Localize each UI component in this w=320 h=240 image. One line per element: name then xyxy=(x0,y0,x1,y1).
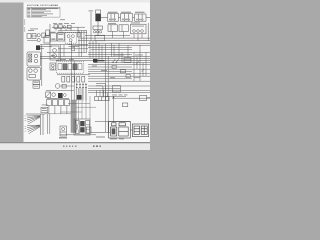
horn box xyxy=(62,84,66,88)
solenoid box xyxy=(46,92,51,97)
fuse F2 xyxy=(67,76,70,82)
top bus wires xyxy=(75,36,150,46)
gauge box G1 xyxy=(44,36,50,43)
fuse F3 xyxy=(72,76,75,82)
wire from coil down xyxy=(97,21,99,36)
node label near coil xyxy=(89,10,94,13)
viewer bottom divider line xyxy=(0,142,150,143)
wire below relay bank xyxy=(60,134,96,136)
connector fan CN1 xyxy=(27,116,40,124)
svg-text:ELECTRICAL CIRCUIT DIAGRAM: ELECTRICAL CIRCUIT DIAGRAM xyxy=(27,4,58,7)
horn circle H1 xyxy=(55,84,60,89)
junction node dot xyxy=(113,96,115,98)
gauge drop wires xyxy=(61,45,64,61)
meter box A xyxy=(50,33,56,41)
wire bottom link xyxy=(95,121,130,123)
right half vertical wires xyxy=(90,41,146,132)
small inline relay xyxy=(72,46,75,51)
battery unit box xyxy=(109,122,131,138)
wire fan to bundle xyxy=(45,113,72,115)
switch box row SW2 xyxy=(52,100,57,106)
labels near junction connector xyxy=(51,55,74,60)
instrument cluster U2 (dashed) xyxy=(65,33,76,43)
meter box B xyxy=(57,33,64,41)
ignition coil T1 xyxy=(96,10,101,21)
relay box row mid-top K4 xyxy=(108,25,117,32)
legend table text rows xyxy=(28,8,58,17)
wire mesh right of band xyxy=(60,88,96,120)
dark junction box on band xyxy=(77,95,82,100)
wire horn to bundle xyxy=(60,85,74,87)
ground chain wire xyxy=(52,25,85,33)
sensor circle small xyxy=(63,94,66,97)
labels right half lower xyxy=(92,66,140,79)
legend table xyxy=(27,7,60,17)
relay bank bottom-mid xyxy=(74,119,90,135)
vertical wire x50 xyxy=(49,24,51,47)
harness band (gray vertical bundle) xyxy=(71,100,76,133)
junction connector J1 (dashed) xyxy=(56,62,83,74)
ignition switch box bottom xyxy=(60,126,66,136)
small box mid-low xyxy=(122,103,127,107)
vertical bundle from instrument wires xyxy=(79,31,87,57)
labels above flasher xyxy=(108,23,140,24)
lamp B2 xyxy=(37,38,40,41)
fuse row bus wire xyxy=(57,74,90,76)
motor circle M2 xyxy=(52,93,56,97)
switch box row SW1 xyxy=(46,100,51,106)
wires sender to gauges xyxy=(40,46,52,48)
terminal strip row xyxy=(95,97,109,101)
white schematic page xyxy=(24,3,151,143)
wire K3 to page edge xyxy=(146,17,150,19)
dual gauge G2 xyxy=(50,46,59,60)
connector tick pairs xyxy=(76,85,87,88)
starter unit box xyxy=(132,124,148,137)
wire K2-K3 xyxy=(133,17,135,19)
lower-left small box xyxy=(86,127,91,133)
battery feed vertical wire xyxy=(113,97,115,122)
ignition label dash xyxy=(59,136,67,139)
small box right edge xyxy=(140,95,147,100)
indicator box L4 xyxy=(46,30,49,35)
indicator box L2 xyxy=(32,34,36,39)
box-to-bus stub wires xyxy=(113,31,143,40)
sender blob xyxy=(36,45,40,50)
page edge marks xyxy=(23,19,26,32)
gauge feed wire xyxy=(40,44,72,46)
small components on right bus xyxy=(112,61,144,77)
small relay pair boxes xyxy=(33,81,40,88)
wires below switch row xyxy=(49,106,67,114)
lamp unit P2 (rounded box) xyxy=(27,67,41,80)
fuse F4 xyxy=(77,76,80,82)
wire solenoid row xyxy=(46,90,74,92)
left lamp cluster labels xyxy=(28,29,38,31)
connector fan CN2 xyxy=(27,125,40,134)
wire battery to starter xyxy=(130,129,132,131)
dark module box xyxy=(58,93,63,98)
switch box row SW3 xyxy=(58,100,63,106)
right half bus wires xyxy=(88,47,150,81)
relay box row mid-top K5 xyxy=(119,25,128,32)
labels right of terminal strip xyxy=(112,94,128,97)
connector stub box xyxy=(77,33,80,37)
footer tick marks xyxy=(63,145,101,147)
viewer top strip xyxy=(0,0,150,3)
wire right edge xyxy=(147,97,150,99)
right edge vertical wire xyxy=(147,23,149,41)
viewer gray background left panel xyxy=(0,3,24,143)
harness elbow bends xyxy=(96,83,106,98)
labels above ground chain xyxy=(53,19,75,24)
relay box K2 xyxy=(121,14,133,22)
wire left cluster xyxy=(27,35,50,40)
viewer bottom strip xyxy=(0,143,150,150)
indicator box L3 xyxy=(42,33,45,38)
fuse F5 xyxy=(82,76,85,82)
wires into terminal strip xyxy=(96,90,107,96)
label above fuse boxes xyxy=(108,11,145,14)
relay box K1 xyxy=(108,14,119,22)
labels right mid xyxy=(114,54,143,57)
fan pin labels xyxy=(25,116,27,132)
connector fan header wire xyxy=(26,113,45,115)
switch box row SW4 xyxy=(64,100,69,106)
wire coil to fuse box A xyxy=(101,17,108,19)
small relay box mid xyxy=(124,58,131,63)
small text block above fan xyxy=(42,105,48,111)
wire K1-K2 xyxy=(119,17,121,19)
vertical feed wire xyxy=(90,12,92,41)
upper-mid horizontal wires y84-98 xyxy=(88,86,150,98)
wires meter to bus xyxy=(58,44,88,48)
dark component box mid xyxy=(93,59,97,63)
labels above meter boxes xyxy=(50,31,63,34)
wires above instrument cluster xyxy=(58,31,87,33)
vertical wire left bundle xyxy=(41,45,43,86)
fan vertical wires xyxy=(40,114,43,135)
mid long bus wires xyxy=(40,52,150,60)
sensor box with contacts xyxy=(50,63,56,70)
labels above switch row xyxy=(47,97,69,100)
lamp unit P1 (rounded box) xyxy=(27,52,41,66)
relay box K3 xyxy=(135,14,147,21)
lamp B1 xyxy=(37,34,40,37)
wire bottom horizontal xyxy=(91,132,110,134)
bordered note box xyxy=(41,107,48,113)
mid cluster components xyxy=(93,26,105,41)
thick harness segment xyxy=(96,60,105,61)
middle vertical bundle xyxy=(72,41,86,114)
flasher box K6 xyxy=(131,24,147,34)
footer schematic label xyxy=(96,137,124,140)
wire pair bottom-mid xyxy=(48,114,50,134)
fuse F1 xyxy=(62,76,65,82)
switch contact pair xyxy=(113,59,120,63)
module box E1 xyxy=(112,86,120,92)
indicator box L1 xyxy=(27,34,31,39)
